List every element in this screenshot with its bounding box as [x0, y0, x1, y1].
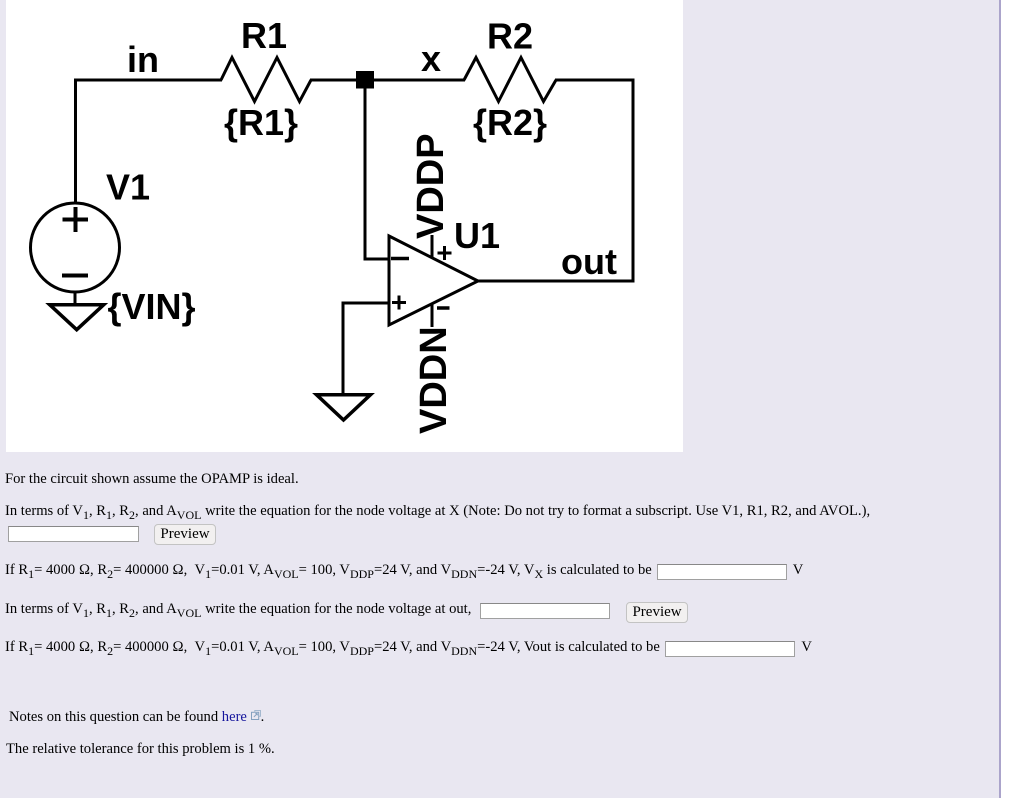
wire: node X to R2 left [372, 79, 465, 82]
resistor R1 [221, 58, 311, 102]
svg-text:R1: R1 [241, 15, 287, 56]
ground (below V1) [50, 305, 104, 330]
svg-text:in: in [127, 39, 159, 80]
plus mark at VDDP pin [438, 246, 452, 260]
op-amp U1 triangle [389, 236, 478, 325]
svg-text:{R2}: {R2} [473, 102, 547, 143]
ground (non-inverting input) [317, 395, 371, 420]
minus mark at VDDN pin [437, 306, 450, 310]
wire: R1 right to node X [310, 79, 358, 82]
op-amp VDDP pin [431, 235, 434, 258]
svg-text:{R1}: {R1} [224, 102, 298, 143]
op-amp VDDN pin [431, 304, 434, 327]
wire: non-inverting input horizontal [342, 302, 391, 305]
wire: left vertical from top wire to V1 top [74, 79, 77, 205]
resistor R2 [464, 58, 556, 102]
wire: feedback vertical from node X down [364, 88, 367, 259]
plus mark non-inverting input [392, 296, 406, 310]
svg-text:VDDN: VDDN [413, 326, 455, 434]
V1 minus sign [62, 274, 88, 278]
wire: output horizontal from op-amp apex [477, 280, 635, 283]
svg-text:VDDP: VDDP [410, 133, 452, 239]
wire: R2 right to top-right corner [555, 79, 635, 82]
wire: V1 bottom to ground [74, 292, 77, 304]
svg-text:R2: R2 [487, 16, 533, 57]
svg-text:out: out [561, 241, 617, 282]
svg-text:{VIN}: {VIN} [108, 286, 196, 327]
svg-text:V1: V1 [106, 167, 150, 208]
wire: non-inverting vertical to ground [342, 302, 345, 395]
minus mark inverting input [391, 257, 409, 261]
wire: top horizontal, corner to R1 left [74, 79, 222, 82]
svg-text:x: x [421, 38, 441, 79]
wire: right vertical (out net) [632, 79, 635, 282]
svg-text:U1: U1 [454, 215, 500, 256]
voltage source V1 circle [31, 203, 120, 292]
wire: inverting input stub [364, 258, 391, 261]
V1 plus sign [63, 207, 89, 232]
node X junction dot [356, 71, 374, 89]
